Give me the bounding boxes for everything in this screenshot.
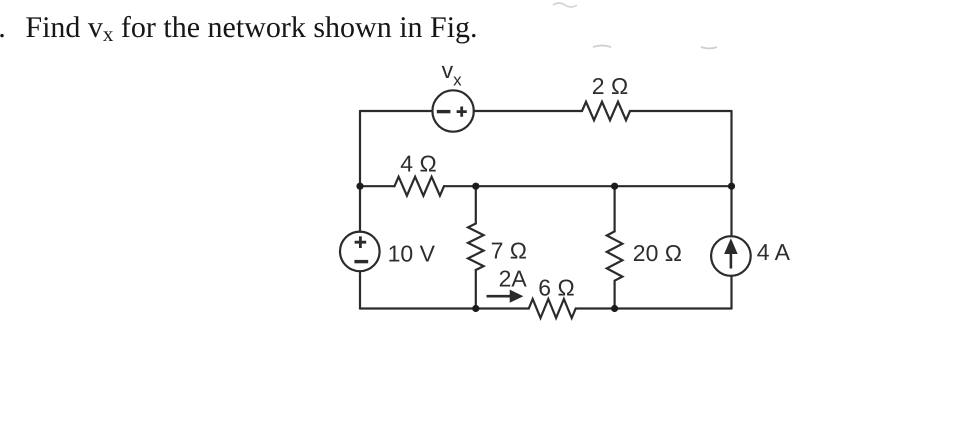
wire left vertical lower [359, 271, 361, 308]
voltage source Vx circle [432, 90, 473, 131]
faint artifact dash 1 [593, 46, 611, 48]
svg-text:2A: 2A [499, 266, 528, 292]
wire bottom-right (6-ohm to right corner) [576, 307, 732, 309]
junction node dot bottom 7-ohm [472, 305, 479, 312]
svg-text:.Find vx for the network shown: .Find vx for the network shown in Fig. [0, 11, 478, 46]
wire middle (4-ohm to right node) [444, 185, 732, 187]
current source 4A circle [711, 236, 751, 276]
svg-text:10 V: 10 V [388, 240, 436, 266]
junction node dot middle-left [356, 183, 363, 190]
resistor 7-ohm zigzag [468, 224, 484, 271]
Vx source plus sign [457, 107, 467, 117]
svg-text:6 Ω: 6 Ω [538, 275, 574, 301]
wire top-right (2-ohm resistor to right corner) [630, 110, 732, 112]
svg-text:20 Ω: 20 Ω [633, 240, 682, 266]
wire middle-left (node to 4-ohm) [360, 185, 395, 187]
wire left vertical upper [359, 111, 361, 232]
wire top-left horizontal (left corner to Vx source) [360, 110, 432, 112]
junction node dot bottom 20-ohm [611, 305, 618, 312]
junction node dot middle 7-ohm [472, 183, 479, 190]
svg-text:2 Ω: 2 Ω [592, 73, 628, 99]
svg-text:7 Ω: 7 Ω [491, 238, 527, 264]
wire right vertical upper [730, 111, 732, 236]
wire right vertical lower [730, 276, 732, 309]
wire bottom-left (corner to 6-ohm) [360, 307, 529, 309]
wire 20-ohm leads vertical [613, 186, 615, 308]
junction node dot middle 20-ohm [611, 183, 618, 190]
resistor 6-ohm zigzag [529, 299, 576, 318]
wire 7-ohm leads vertical [475, 186, 477, 308]
wire top (Vx source to 2-ohm resistor) [474, 110, 582, 112]
10V source plus sign [355, 236, 367, 248]
faint artifact dash 2 [701, 47, 717, 49]
4A source arrow [730, 252, 733, 269]
svg-text:4 A: 4 A [757, 239, 791, 265]
svg-text:4 Ω: 4 Ω [400, 151, 436, 177]
resistor 2-ohm zigzag [582, 102, 630, 120]
10V source minus sign [354, 260, 368, 263]
voltage source 10V circle [340, 232, 380, 272]
resistor 4-ohm zigzag [395, 177, 445, 196]
2A current arrow [487, 295, 513, 298]
junction node dot middle-right [728, 183, 735, 190]
faint cropped-text artifact top center [553, 3, 577, 7]
resistor 20-ohm zigzag [607, 231, 623, 280]
Vx source minus sign [437, 110, 451, 113]
